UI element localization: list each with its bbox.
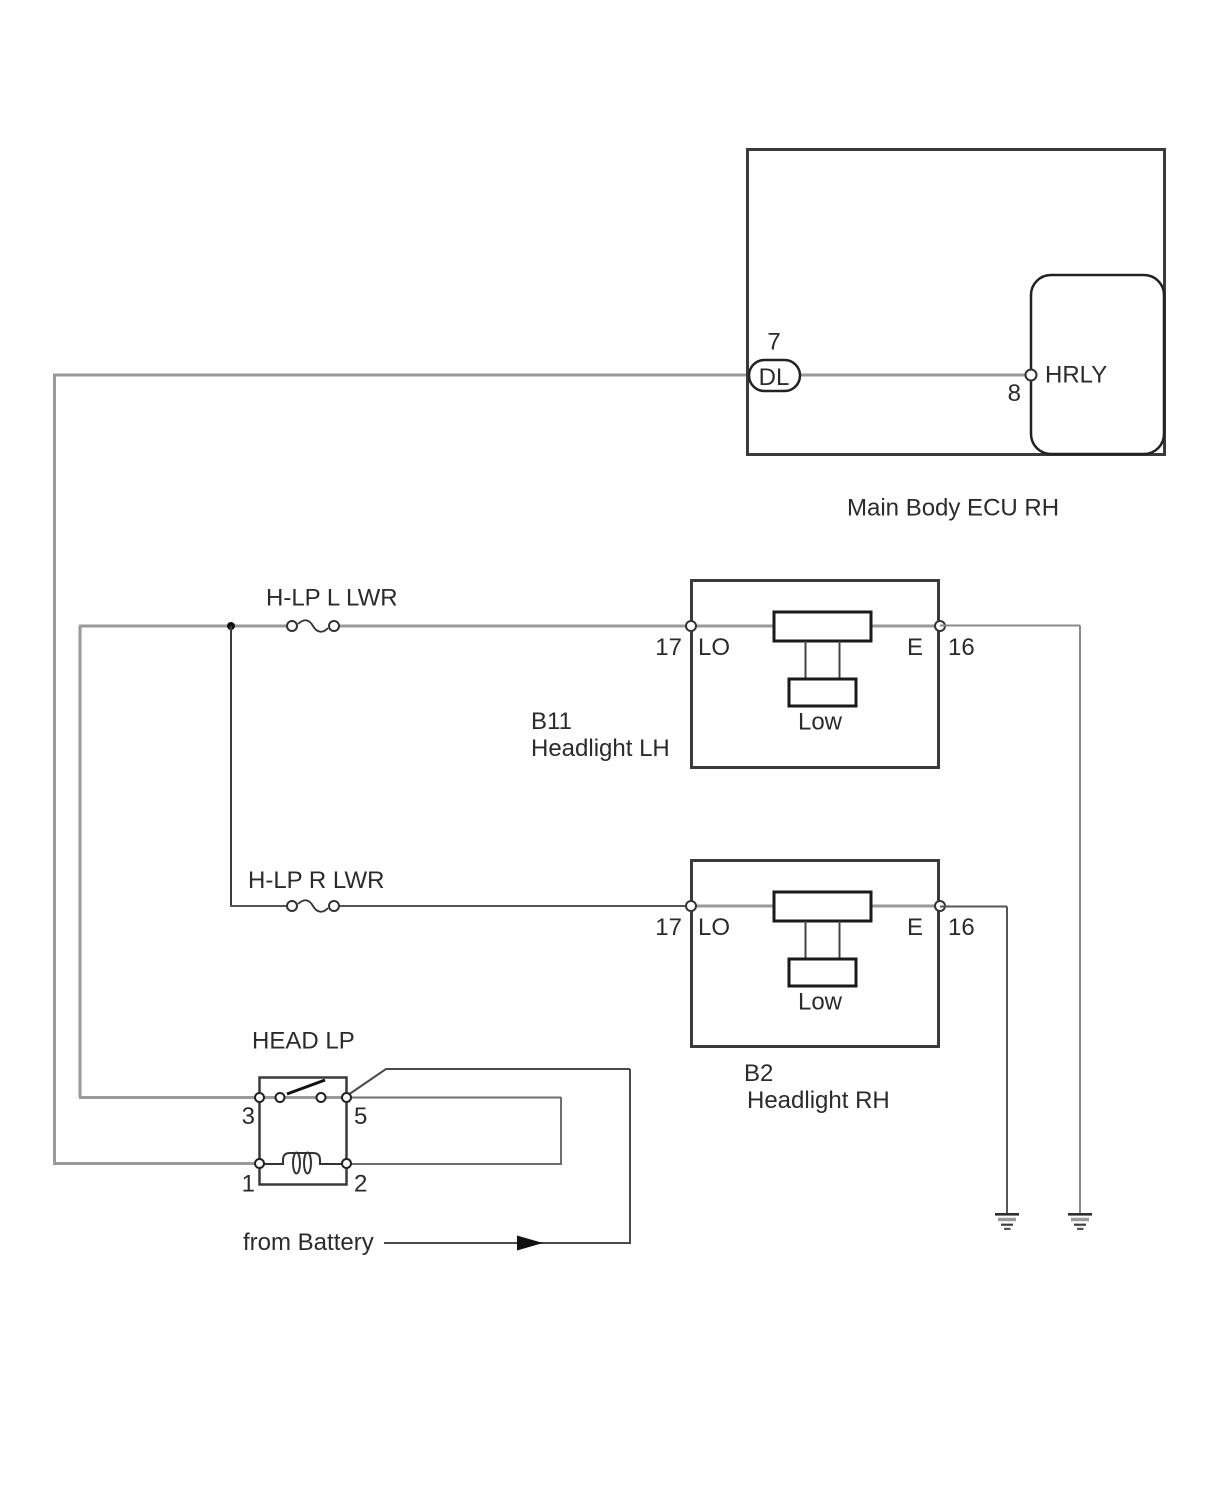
lamp base B11 [789, 679, 856, 706]
svg-text:8: 8 [1008, 380, 1021, 407]
wire pin5 diagonal battery feed [348, 1069, 630, 1095]
pin 17 circle B11 [686, 621, 696, 631]
pin 5 circle [342, 1093, 351, 1102]
svg-text:5: 5 [354, 1103, 367, 1130]
relay coil [283, 1153, 320, 1164]
arrowhead battery direction [517, 1236, 543, 1251]
relay HRLY box [1031, 275, 1164, 454]
lamp stem lines B11 [805, 641, 807, 679]
svg-text:2: 2 [354, 1171, 367, 1198]
svg-text:LO: LO [698, 914, 730, 941]
svg-text:H-LP L LWR: H-LP L LWR [266, 585, 398, 612]
fuse H-LP L LWR [287, 620, 339, 631]
svg-text:LO: LO [698, 634, 730, 661]
headlight B11 box [692, 581, 939, 768]
svg-text:Headlight LH: Headlight LH [531, 735, 670, 762]
wire fuse2 to headlight RH pin 17 [338, 905, 691, 907]
svg-text:H-LP R LWR: H-LP R LWR [248, 867, 384, 894]
wire junction down to second fuse row [230, 626, 232, 906]
connector oval DL (pin 7) [749, 360, 800, 391]
pin 17 circle B2 [686, 901, 696, 911]
wire from Battery horizontal [384, 1242, 631, 1244]
wire left rail vertical [53, 375, 56, 1163]
wire coil baseline pin2 side [319, 1163, 346, 1165]
svg-text:from Battery: from Battery [243, 1229, 374, 1256]
wire B2 E to ground [940, 906, 1007, 908]
wire through headlight RH [691, 905, 940, 908]
pin 1 circle [255, 1159, 264, 1168]
svg-text:17: 17 [655, 914, 682, 941]
wire relay switch row inside [259, 1096, 346, 1099]
wire vertical rail to relay pin 3 [79, 626, 82, 1097]
lamp Low B11 filament top [774, 612, 871, 641]
relay HEAD LP box [260, 1078, 347, 1185]
wire coil baseline pin1 side [259, 1163, 284, 1165]
ECU box Main Body ECU RH [748, 150, 1165, 455]
lamp stem lines B2 [805, 921, 807, 959]
svg-text:16: 16 [948, 914, 975, 941]
headlight B2 box [692, 861, 939, 1047]
wire second fuse row left segment [230, 905, 288, 907]
wire B11 E to ground rail [940, 625, 1080, 627]
wire through headlight LH [691, 625, 940, 628]
svg-text:Low: Low [798, 709, 843, 736]
wire DL feed horizontal (node DL to left rail) [53, 374, 1026, 377]
relay contact circles [276, 1093, 285, 1102]
wire fuse1 to headlight LH pin 17 [338, 625, 691, 628]
svg-text:E: E [907, 914, 923, 941]
wire relay pin 3 horizontal [79, 1096, 259, 1099]
wire fuse1 feed left segment [79, 625, 288, 628]
pin 2 circle [342, 1159, 351, 1168]
svg-text:16: 16 [948, 634, 975, 661]
lamp Low B2 filament top [774, 892, 871, 921]
svg-text:DL: DL [759, 364, 790, 391]
node junction at fuse rail [227, 622, 235, 630]
pin 8 circle [1026, 370, 1037, 381]
svg-text:Main Body ECU RH: Main Body ECU RH [847, 495, 1059, 522]
lamp base B2 [789, 959, 856, 986]
fuse H-LP R LWR [287, 900, 339, 911]
svg-text:B11: B11 [531, 708, 572, 735]
wire pin5 loop top to pin 2 [346, 1097, 561, 1099]
svg-text:E: E [907, 634, 923, 661]
wire battery vertical [629, 1069, 631, 1243]
switch blade relay [287, 1080, 325, 1094]
ground (B2 side) [995, 1213, 1019, 1230]
ground (B11 side) [1068, 1213, 1092, 1230]
svg-text:3: 3 [242, 1103, 255, 1130]
pin 3 circle [255, 1093, 264, 1102]
svg-text:HRLY: HRLY [1045, 362, 1107, 389]
svg-text:B2: B2 [744, 1060, 773, 1087]
wire bottom horizontal to relay pin 1 [53, 1162, 259, 1165]
svg-text:HEAD LP: HEAD LP [252, 1028, 355, 1055]
svg-text:17: 17 [655, 634, 682, 661]
pin 16 circle B2 [935, 901, 945, 911]
svg-text:7: 7 [767, 329, 780, 356]
svg-text:1: 1 [242, 1171, 255, 1198]
svg-text:Low: Low [798, 989, 843, 1016]
pin 16 circle B11 [935, 621, 945, 631]
svg-text:Headlight RH: Headlight RH [747, 1087, 890, 1114]
